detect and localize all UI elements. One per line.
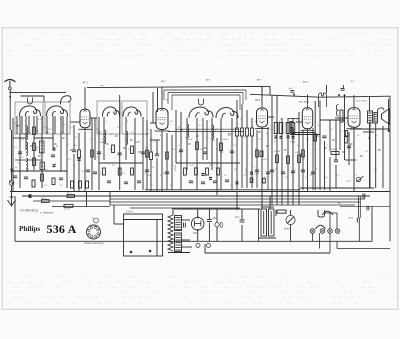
- svg-text:50000: 50000: [186, 139, 193, 141]
- wire bus2: [22, 195, 370, 197]
- label value: [374, 169, 378, 171]
- wire: [34, 137, 53, 139]
- wire: [319, 233, 321, 249]
- label value: [170, 121, 174, 123]
- wire: [290, 210, 292, 215]
- wire right low h: [340, 205, 390, 207]
- label AF 2: [161, 80, 166, 83]
- wire: [296, 121, 302, 123]
- svg-text:506: 506: [193, 232, 198, 235]
- wire: [246, 110, 248, 128]
- label value: [28, 132, 32, 134]
- label value: [117, 127, 121, 129]
- label value: [365, 151, 369, 153]
- wire: [358, 222, 360, 241]
- wire tick: [62, 137, 65, 139]
- label value: [330, 129, 333, 131]
- wire: [62, 116, 64, 134]
- shield box bf2b: [122, 101, 147, 134]
- wire: [335, 117, 348, 119]
- wire: [78, 158, 80, 192]
- svg-text:Philips: Philips: [19, 225, 40, 233]
- label value: [199, 125, 203, 127]
- wire: [13, 137, 26, 139]
- resistor R28h: [277, 210, 286, 213]
- wire: [204, 244, 206, 253]
- label value: [146, 129, 150, 131]
- chassis stud 2: [149, 250, 152, 253]
- wire right edge: [389, 96, 391, 242]
- coil L5 winding: [26, 158, 28, 172]
- wire: [216, 227, 218, 241]
- label value: [145, 157, 148, 159]
- label value: [60, 185, 63, 187]
- label value: [178, 127, 181, 129]
- resistor R27b: [340, 110, 343, 122]
- wire: [324, 141, 326, 190]
- svg-text:+Be: +Be: [212, 217, 217, 220]
- capacitor C21: [225, 180, 229, 182]
- label value: [230, 185, 232, 187]
- wire: [60, 116, 62, 172]
- wire: [150, 160, 152, 192]
- wire: [152, 92, 154, 123]
- wire: [168, 252, 190, 254]
- label value: [349, 125, 353, 127]
- label d4: [295, 152, 301, 154]
- resistor R21c: [291, 123, 295, 134]
- wire: [275, 210, 277, 216]
- label value: [112, 165, 115, 167]
- label value: [305, 177, 309, 179]
- label value: [178, 145, 180, 147]
- wire: [335, 120, 337, 160]
- wire tick: [220, 151, 223, 153]
- shield box tuner 1: [15, 102, 43, 134]
- capacitor C3: [13, 176, 17, 178]
- resistor R19d: [263, 179, 266, 184]
- resistor R29b: [345, 131, 347, 137]
- label value: [340, 131, 344, 133]
- resistor R24: [298, 155, 301, 163]
- resistor inline Rb: [64, 204, 73, 207]
- wire: [78, 133, 80, 150]
- wire tick: [130, 139, 133, 141]
- wire: [302, 130, 304, 190]
- label AF 2 b: [257, 79, 262, 82]
- wire: [172, 210, 174, 215]
- label value: [35, 163, 38, 165]
- wire ground bus: [10, 191, 390, 193]
- label value: [264, 177, 268, 179]
- label value: [220, 125, 222, 127]
- resistor R21: [279, 123, 283, 134]
- label value: [315, 169, 318, 171]
- wire: [208, 209, 210, 220]
- coil L9 winding: [126, 131, 128, 145]
- capacitor C32: [363, 194, 365, 199]
- wire tick: [180, 129, 183, 131]
- label vals: [44, 185, 48, 187]
- tube V5: [347, 104, 362, 131]
- wire: [197, 230, 199, 241]
- label value: [102, 139, 106, 141]
- chassis box: [124, 214, 163, 256]
- label value: [357, 135, 360, 137]
- label value: [280, 119, 283, 121]
- resistor R10: [131, 168, 134, 175]
- wire: [261, 86, 263, 104]
- wire tick: [115, 135, 118, 137]
- wire: [359, 196, 361, 218]
- label value: [152, 119, 154, 121]
- wire: [388, 99, 390, 131]
- wire: [73, 125, 75, 150]
- resistor R2: [33, 143, 36, 151]
- label AF2 V1: [83, 82, 89, 85]
- wire tick: [360, 155, 363, 157]
- label 536 A: [47, 222, 77, 236]
- wire tick: [228, 133, 231, 135]
- label value: [172, 149, 175, 151]
- label value: [14, 147, 18, 149]
- capacitor C28: [291, 171, 295, 173]
- wire: [52, 116, 54, 150]
- svg-text:AB 2: AB 2: [255, 99, 261, 102]
- label R2: [36, 147, 39, 149]
- capacitor C25c dark: [292, 136, 295, 138]
- wire: [258, 237, 276, 239]
- wire: [180, 112, 182, 190]
- label value: [213, 131, 217, 133]
- resistor R8: [103, 168, 106, 175]
- wire: [21, 95, 45, 97]
- resistor R18d: [251, 128, 254, 136]
- wire: [84, 132, 86, 192]
- svg-text:1000: 1000: [295, 152, 301, 154]
- svg-text:AF 2: AF 2: [161, 80, 166, 83]
- wire tick: [98, 131, 101, 133]
- wire: [251, 136, 253, 188]
- svg-text:(350): (350): [348, 217, 353, 219]
- wire: [182, 239, 191, 241]
- capacitor C14: [155, 154, 159, 156]
- wire: [236, 192, 238, 211]
- terminal 1: [196, 243, 200, 247]
- wire tick: [30, 145, 33, 147]
- label 4uF: [235, 216, 240, 219]
- label v3: [255, 99, 261, 102]
- wire: [281, 118, 283, 205]
- label value: [183, 175, 187, 177]
- capacitor Cx2: [93, 172, 97, 174]
- wire tick: [106, 143, 109, 145]
- capacitor C5: [59, 178, 63, 180]
- wire: [12, 118, 14, 192]
- label value: [132, 165, 134, 167]
- wire: [236, 136, 238, 190]
- capacitor C31b: [341, 89, 345, 91]
- wire h r1: [363, 131, 374, 133]
- wire: [241, 209, 243, 220]
- wire: [269, 196, 271, 209]
- label value: [255, 149, 259, 151]
- svg-text:Entbr.: Entbr.: [284, 228, 291, 231]
- label value: [240, 119, 242, 121]
- label F 2: [351, 81, 355, 83]
- wire: [41, 116, 43, 188]
- label value: [327, 145, 329, 147]
- label value: [75, 137, 79, 139]
- resistor R4: [41, 174, 44, 181]
- svg-text:50000: 50000: [175, 164, 177, 171]
- wire: [125, 117, 127, 160]
- wire: [43, 96, 45, 102]
- wire tick: [292, 141, 295, 143]
- wire: [28, 116, 30, 134]
- label R1: [36, 131, 39, 133]
- resistor Rx4: [256, 150, 259, 157]
- antenna: [4, 79, 15, 86]
- coil L11: [216, 108, 238, 118]
- label rotated2: [246, 167, 248, 174]
- resistor R12: [196, 142, 199, 150]
- label value: [173, 165, 175, 167]
- wire h210: [172, 208, 260, 210]
- terminal 2: [207, 243, 211, 247]
- winding W1 dark: [40, 141, 45, 153]
- coil L7: [123, 107, 141, 117]
- capacitor C11: [107, 181, 111, 183]
- wire tick: [316, 135, 319, 137]
- label value: [147, 175, 152, 177]
- label value: [160, 175, 164, 177]
- svg-text:25000: 25000: [222, 139, 229, 141]
- wire: [241, 104, 243, 128]
- label value: [298, 133, 301, 135]
- label AB2: [338, 201, 343, 204]
- wire: [261, 206, 274, 208]
- resistor R19c: [250, 178, 253, 183]
- label value: [356, 175, 358, 177]
- label value: [258, 139, 262, 141]
- label value: [95, 157, 99, 159]
- resistor R11: [150, 152, 153, 160]
- capacitor C7b dark: [77, 158, 80, 160]
- wire: [11, 130, 13, 180]
- label c3: [190, 165, 194, 167]
- wire antenna down: [9, 90, 11, 130]
- wire: [344, 95, 346, 160]
- wire: [216, 138, 218, 195]
- capacitor Cd2 dark: [209, 178, 212, 180]
- wire: [342, 85, 344, 89]
- capacitor C9: [118, 153, 122, 155]
- capacitor C24c dark: [280, 136, 283, 138]
- wire tick: [70, 149, 73, 151]
- shield box bf2a: [97, 101, 120, 134]
- wire h r2: [345, 159, 356, 161]
- wire bus ext a: [33, 200, 110, 202]
- wire tick: [46, 131, 49, 133]
- label ABC 1: [303, 80, 310, 83]
- wire: [375, 123, 377, 188]
- wire top bus main: [87, 86, 262, 87]
- wire: [241, 136, 243, 188]
- label value: [252, 127, 254, 129]
- label value: [36, 149, 38, 151]
- capacitor Ct1: [184, 223, 186, 228]
- wire tick: [284, 149, 287, 151]
- label d1: [279, 121, 281, 123]
- coil L3 winding: [26, 126, 28, 140]
- svg-text:AF 2: AF 2: [257, 79, 262, 82]
- wire: [103, 117, 105, 160]
- wire: [251, 118, 253, 128]
- wire: [90, 117, 97, 119]
- wire: [241, 225, 243, 241]
- label value: [25, 121, 27, 123]
- capacitor C4b: [290, 91, 294, 93]
- label value: [297, 145, 301, 147]
- wire: [314, 101, 316, 190]
- label value: [274, 141, 278, 143]
- transformer T1 secondary: [175, 233, 182, 252]
- coil L13 winding: [212, 125, 214, 139]
- label value: [233, 145, 237, 147]
- label value: [325, 177, 329, 179]
- wire mid h: [145, 189, 300, 191]
- label value: [56, 146, 59, 148]
- label an Netztrafo: [40, 210, 54, 214]
- node: [9, 92, 11, 94]
- selector arch top: [322, 211, 333, 215]
- label value: [152, 167, 155, 169]
- label value: [170, 185, 174, 187]
- capacitor C12: [124, 182, 128, 184]
- wire: [33, 116, 35, 170]
- switch S1: [347, 176, 364, 182]
- svg-text:50000: 50000: [331, 149, 338, 151]
- label value: [376, 135, 378, 137]
- wire: [371, 206, 373, 241]
- label value: [21, 157, 24, 159]
- label value: [224, 175, 228, 177]
- wire: [290, 132, 315, 134]
- wire: [320, 119, 345, 121]
- capacitor C4: [24, 177, 28, 179]
- label value: [82, 171, 86, 173]
- resistor R15: [195, 168, 198, 175]
- capacitor C33: [207, 220, 212, 222]
- resistor Rx3: [166, 152, 169, 159]
- label v4l: [289, 88, 293, 90]
- tube socket bottom view: [87, 218, 101, 240]
- wire tick: [54, 143, 57, 145]
- page bleedthrough texture: [6, 33, 398, 303]
- shield box bf3 left edges: [164, 90, 172, 110]
- svg-text:5k: 5k: [36, 149, 38, 151]
- label value: [44, 127, 48, 129]
- svg-text:50000: 50000: [100, 142, 107, 144]
- label value: [313, 149, 317, 151]
- wire: [369, 96, 371, 111]
- capacitor Cw3 dark: [11, 169, 14, 171]
- wire: [261, 86, 263, 95]
- resistor inline Ra: [42, 200, 50, 203]
- wire bus ext b: [52, 206, 110, 208]
- trimmer C6: [9, 180, 14, 185]
- capacitor Cx6: [266, 172, 270, 174]
- label value: [275, 169, 278, 171]
- capacitor C37: [367, 206, 369, 211]
- shield box bf3 bottom2: [176, 128, 238, 130]
- label value: [200, 149, 204, 151]
- wire: [319, 101, 321, 191]
- capacitor C8: [97, 152, 101, 154]
- node: [338, 94, 340, 96]
- resistor R16: [206, 168, 209, 175]
- tube V2: [155, 105, 170, 134]
- label c37: [358, 205, 362, 207]
- coil L6: [102, 107, 119, 117]
- label value: [160, 135, 164, 137]
- label value: [63, 124, 66, 126]
- label value: [60, 132, 64, 134]
- wire: [369, 120, 371, 188]
- wire tick: [196, 135, 199, 137]
- label value: [70, 127, 74, 129]
- wire: [236, 100, 238, 128]
- wire: [329, 120, 331, 151]
- capacitor C25 dark: [287, 136, 290, 138]
- choke curl: [336, 104, 338, 116]
- label Philips: [19, 225, 40, 233]
- node: [388, 130, 390, 132]
- wire tick: [212, 139, 215, 141]
- resistor R18c: [246, 128, 249, 136]
- wire tick: [342, 151, 345, 153]
- wire: [161, 134, 163, 192]
- wire: [206, 120, 208, 160]
- wire top bus A: [10, 91, 66, 93]
- capacitor Cw2 dark: [53, 165, 56, 167]
- wire bottom return: [205, 252, 330, 254]
- wire: [268, 116, 274, 118]
- wire tick: [332, 139, 335, 141]
- shield box bf3 bottom: [168, 131, 243, 133]
- wire: [156, 158, 158, 192]
- wire: [66, 116, 68, 188]
- label value: [45, 169, 49, 171]
- capacitor C19: [201, 182, 205, 184]
- label value: [214, 129, 218, 131]
- transformer T2: [261, 209, 274, 236]
- capacitor Cd1 dark: [202, 174, 205, 176]
- wire bus4: [110, 201, 360, 203]
- resistor R6: [112, 145, 115, 153]
- coil L10: [189, 99, 213, 118]
- wire top bus corner: [246, 86, 270, 95]
- wire selector right loop: [337, 241, 390, 248]
- wire tick: [38, 155, 41, 157]
- resistor R3: [33, 158, 36, 166]
- capacitor C17: [230, 151, 234, 153]
- speaker LS: [382, 109, 390, 125]
- capacitor C34b: [220, 223, 222, 228]
- label 20pF: [15, 167, 18, 169]
- capacitor Cx4: [165, 172, 169, 174]
